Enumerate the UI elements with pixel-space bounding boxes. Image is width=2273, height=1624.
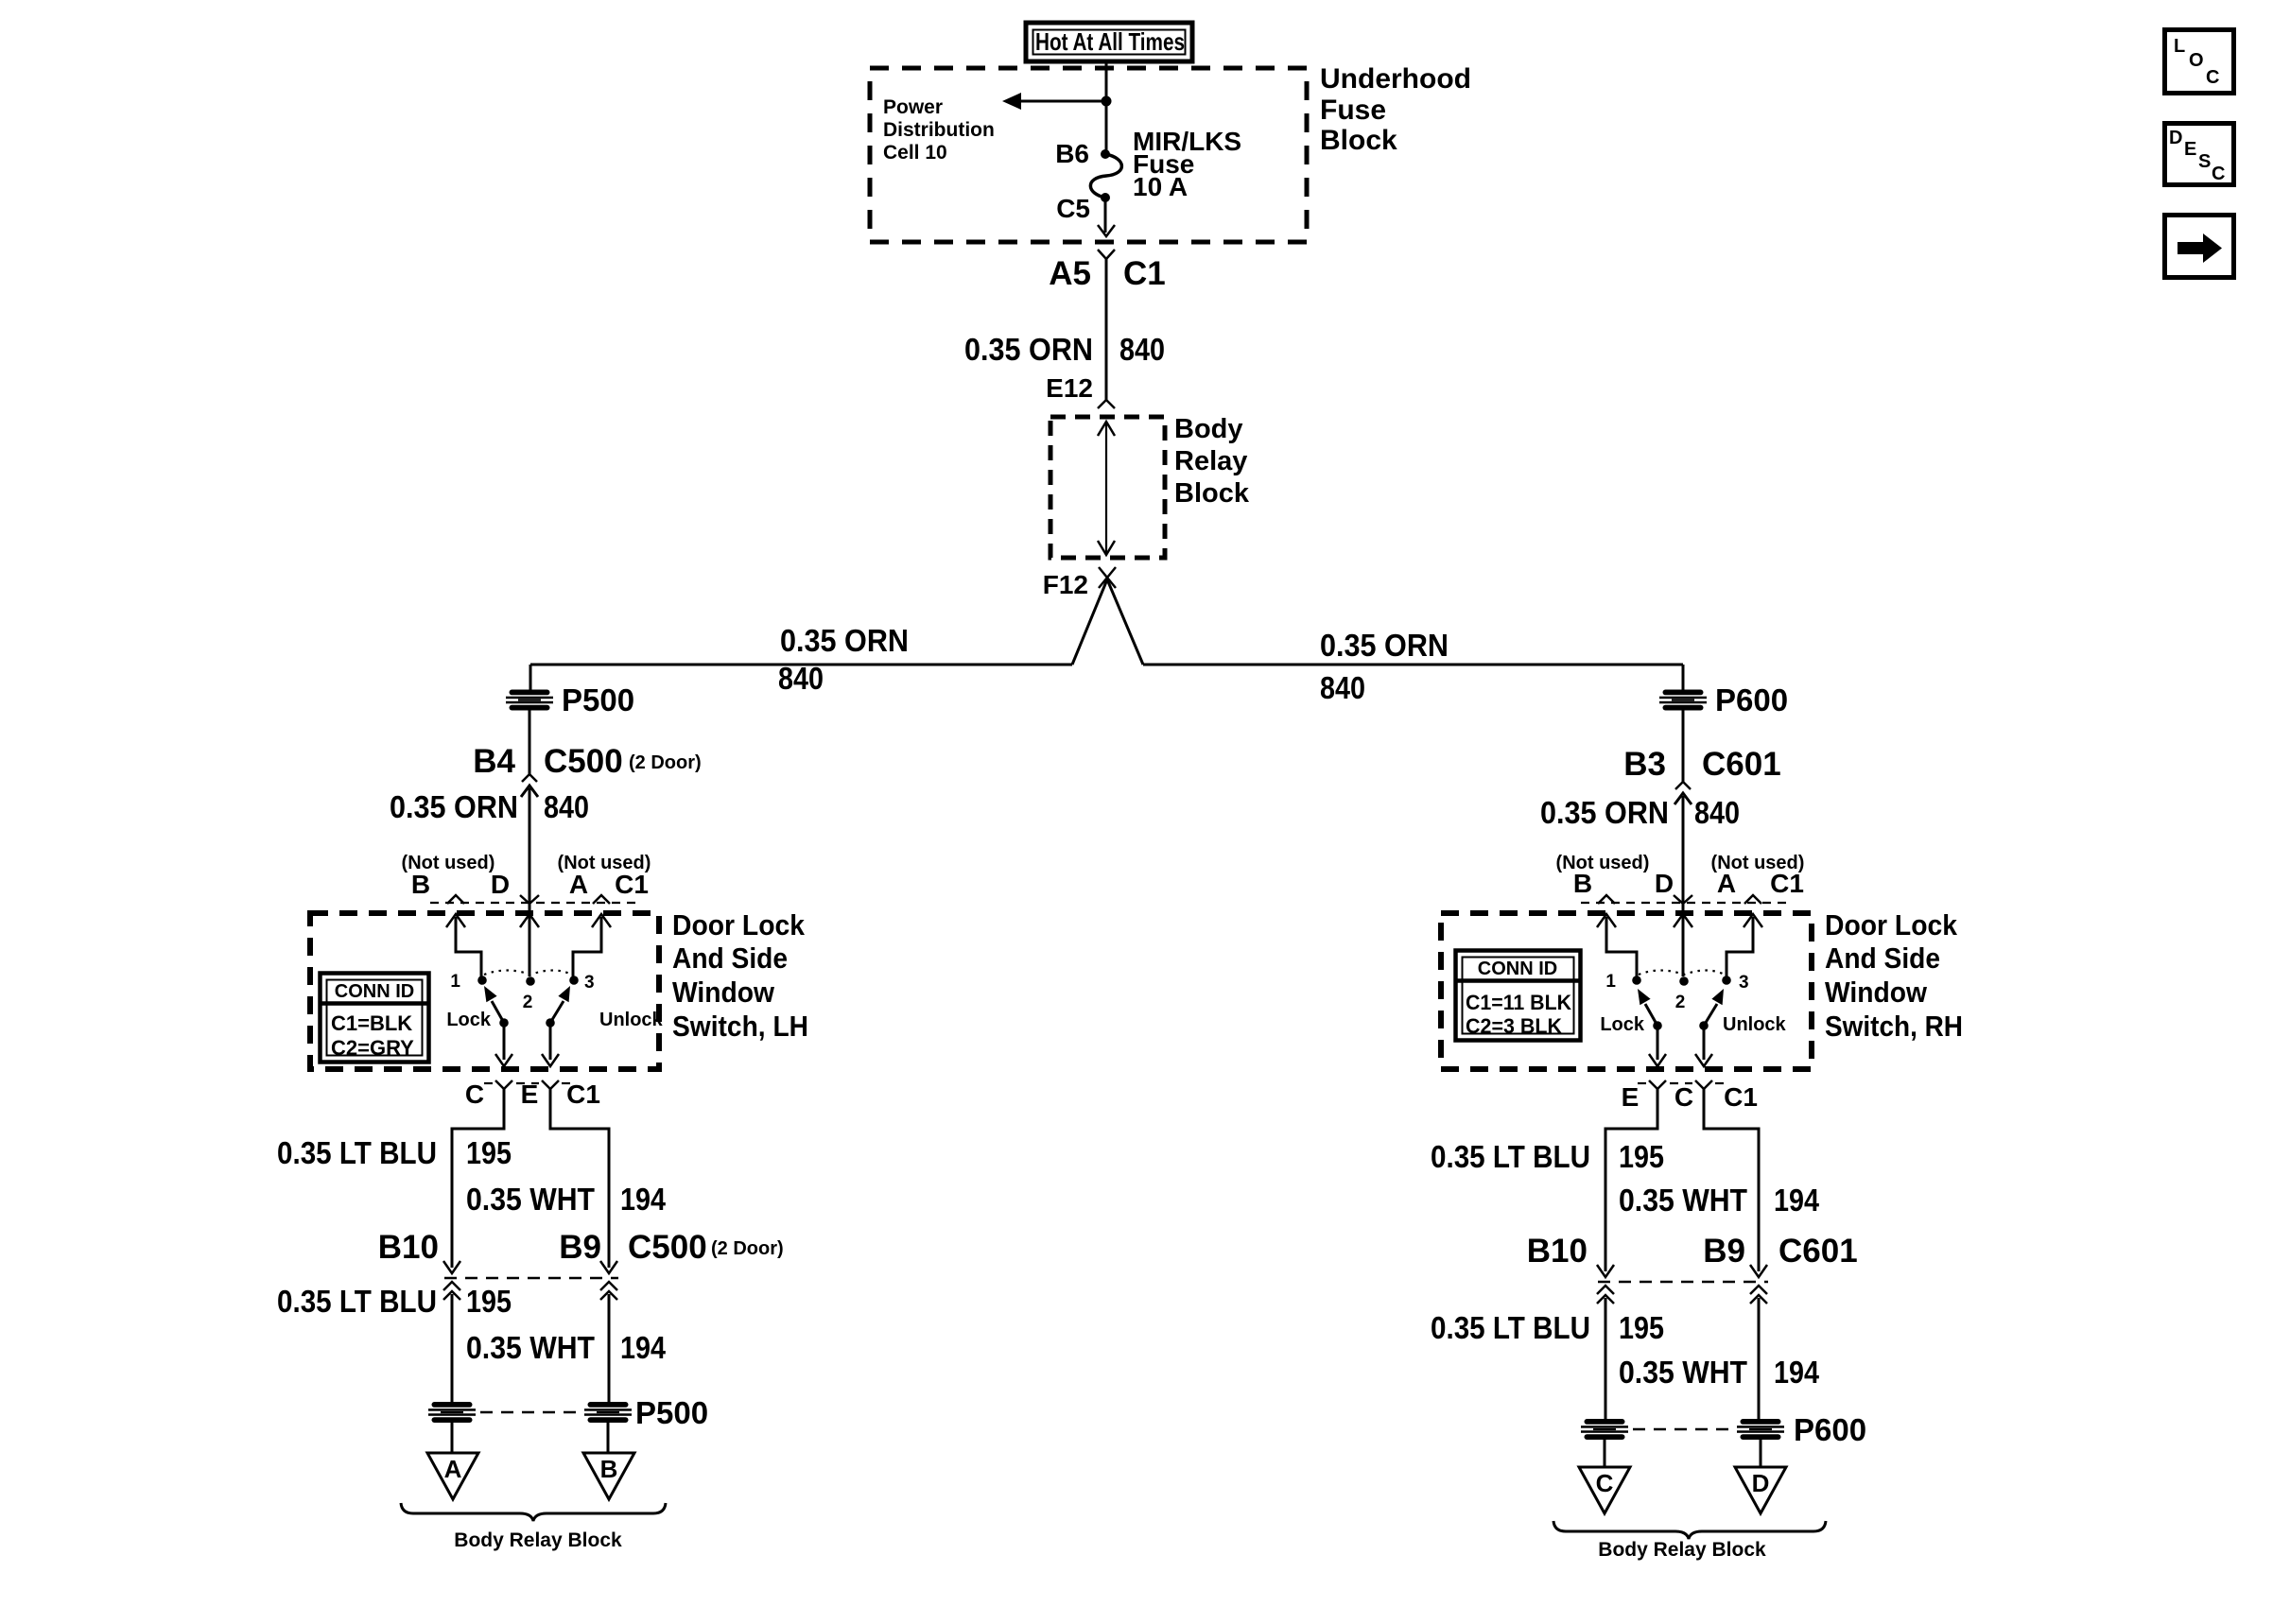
node contact 1 bbox=[1632, 976, 1641, 985]
connector face dashed line bbox=[430, 902, 635, 904]
wire WHT from C1 bbox=[1704, 1089, 1759, 1271]
svg-text:A: A bbox=[1717, 869, 1736, 898]
svg-text:Block: Block bbox=[1174, 478, 1250, 509]
fuse MIR/LKS 10A bbox=[1090, 154, 1121, 198]
wire into triangle C bbox=[1604, 1440, 1606, 1467]
label Body Relay Block bbox=[1174, 414, 1250, 509]
svg-text:D: D bbox=[2169, 128, 2182, 148]
svg-text:O: O bbox=[2189, 50, 2204, 71]
svg-text:Lock: Lock bbox=[1600, 1014, 1645, 1035]
wire Unlock contact down bbox=[549, 1023, 552, 1060]
connector grommet P600 bottom right bbox=[1737, 1419, 1784, 1440]
svg-text:B9: B9 bbox=[559, 1229, 601, 1266]
wire pin A to contact 3 bbox=[1726, 914, 1762, 976]
node contact 1 bbox=[477, 976, 487, 985]
svg-text:195: 195 bbox=[466, 1135, 512, 1170]
node contact 2 bbox=[526, 976, 535, 986]
wire 0.35 ORN 840 trunk bbox=[1105, 259, 1108, 400]
label Underhood Fuse Block bbox=[1320, 63, 1471, 156]
svg-text:Door Lock: Door Lock bbox=[1825, 908, 1958, 942]
svg-text:C1: C1 bbox=[566, 1080, 600, 1109]
underhood fuse block dashed box bbox=[870, 68, 1307, 242]
connector C1 separation (A5/C1) bbox=[1098, 250, 1115, 259]
wire WHT from E bbox=[550, 1089, 609, 1268]
svg-text:Window: Window bbox=[1825, 976, 1928, 1009]
label Power Distribution Cell 10 bbox=[883, 96, 995, 164]
CONN ID table LH bbox=[321, 974, 429, 1063]
svg-text:C1: C1 bbox=[615, 870, 649, 899]
svg-text:C: C bbox=[1596, 1469, 1614, 1497]
svg-text:840: 840 bbox=[1320, 670, 1365, 705]
wire 0.35 ORN 840 right vertical bbox=[1682, 796, 1685, 976]
connector C pin separation below switch bbox=[495, 1080, 512, 1089]
svg-text:B10: B10 bbox=[1527, 1233, 1588, 1270]
wire through body relay block (double arrow) bbox=[1098, 422, 1115, 555]
svg-text:A: A bbox=[444, 1455, 462, 1483]
node Lock contact bbox=[499, 1018, 509, 1028]
svg-text:0.35 ORN: 0.35 ORN bbox=[964, 332, 1093, 367]
wire below P500 bbox=[529, 710, 531, 774]
svg-text:194: 194 bbox=[620, 1182, 667, 1217]
wire right branch drop bbox=[1682, 665, 1685, 690]
node terminal triangle A bbox=[427, 1453, 478, 1499]
pin chevron A bbox=[1744, 895, 1761, 904]
connector grommet P600 bottom left bbox=[1581, 1419, 1628, 1440]
wire pin D to contact 2 bbox=[520, 914, 539, 976]
svg-text:Switch, LH: Switch, LH bbox=[672, 1010, 808, 1043]
svg-text:E: E bbox=[2184, 139, 2196, 160]
svg-text:B: B bbox=[411, 870, 430, 899]
door lock switch RH dashed box bbox=[1441, 913, 1812, 1069]
wire right 0.35 ORN 840 horizontal bbox=[1143, 664, 1683, 666]
svg-text:A5: A5 bbox=[1049, 255, 1091, 292]
svg-text:B: B bbox=[1573, 869, 1592, 898]
switch blade Lock bbox=[1638, 989, 1657, 1026]
switch throw dotted arc bbox=[1639, 971, 1725, 976]
connector grommet P500 bottom left bbox=[428, 1402, 476, 1423]
svg-text:Underhood: Underhood bbox=[1320, 63, 1471, 95]
node Unlock contact bbox=[546, 1018, 555, 1028]
node terminal triangle B bbox=[583, 1453, 634, 1499]
svg-text:1: 1 bbox=[450, 972, 460, 992]
svg-text:P500: P500 bbox=[635, 1395, 708, 1430]
svg-text:P600: P600 bbox=[1794, 1412, 1866, 1447]
svg-text:P500: P500 bbox=[562, 682, 634, 717]
svg-text:B: B bbox=[600, 1455, 618, 1483]
pin row B D A C1 bbox=[411, 870, 649, 899]
svg-text:C1=11 BLK: C1=11 BLK bbox=[1466, 991, 1571, 1014]
wire LT BLU lower bbox=[1605, 1298, 1607, 1420]
svg-text:Power: Power bbox=[883, 96, 943, 118]
svg-text:0.35 ORN: 0.35 ORN bbox=[1320, 628, 1449, 663]
node terminal triangle D bbox=[1735, 1467, 1786, 1513]
svg-text:Relay: Relay bbox=[1174, 446, 1247, 476]
CONN ID table RH bbox=[1456, 951, 1581, 1041]
wire left branch drop bbox=[529, 665, 532, 690]
switch blade Unlock bbox=[1704, 989, 1724, 1026]
label Door Lock And Side Window Switch, LH bbox=[672, 908, 808, 1043]
wire main trunk into fuse bbox=[1105, 61, 1108, 154]
svg-text:Unlock: Unlock bbox=[1723, 1014, 1787, 1035]
DESC icon box bbox=[2165, 124, 2234, 185]
svg-text:B3: B3 bbox=[1623, 746, 1666, 783]
svg-text:B9: B9 bbox=[1703, 1233, 1745, 1270]
wire pin D to contact 2 bbox=[1674, 914, 1692, 976]
forward arrow icon box bbox=[2165, 216, 2234, 278]
svg-text:L: L bbox=[2174, 36, 2185, 57]
svg-text:E: E bbox=[521, 1080, 539, 1109]
svg-text:B10: B10 bbox=[378, 1229, 439, 1266]
svg-text:3: 3 bbox=[1739, 973, 1749, 993]
pin row B D A C1 bbox=[1573, 869, 1804, 898]
pin chevron B bbox=[447, 895, 464, 904]
wire LT BLU from E bbox=[1605, 1089, 1657, 1271]
svg-text:C: C bbox=[465, 1080, 484, 1109]
svg-text:194: 194 bbox=[620, 1330, 667, 1365]
svg-text:840: 840 bbox=[544, 789, 589, 824]
brace Body Relay Block left bbox=[401, 1503, 666, 1521]
wire WHT lower bbox=[1758, 1298, 1761, 1420]
svg-text:Body: Body bbox=[1174, 414, 1243, 444]
pin chevron D (wire entry) bbox=[520, 895, 539, 904]
pin C5 bbox=[1101, 193, 1110, 202]
svg-text:0.35 WHT: 0.35 WHT bbox=[1619, 1183, 1747, 1218]
wire into triangle D bbox=[1760, 1440, 1762, 1467]
svg-text:S: S bbox=[2198, 151, 2211, 172]
wire 0.35 ORN 840 left vertical bbox=[529, 788, 531, 976]
svg-text:195: 195 bbox=[1619, 1310, 1664, 1345]
wire arrow to Power Distribution Cell 10 bbox=[1019, 100, 1106, 103]
svg-text:CONN ID: CONN ID bbox=[1478, 959, 1557, 979]
svg-text:840: 840 bbox=[1119, 332, 1165, 367]
svg-text:2: 2 bbox=[523, 993, 533, 1012]
node Hot At All Times label box bbox=[1026, 23, 1192, 61]
wire LT BLU from C bbox=[452, 1089, 504, 1268]
label Door Lock And Side Window Switch, RH bbox=[1825, 908, 1963, 1043]
wire Unlock contact down bbox=[1703, 1026, 1706, 1060]
wire pin B to contact 1 bbox=[1597, 914, 1637, 976]
svg-text:2: 2 bbox=[1675, 993, 1686, 1012]
svg-text:C: C bbox=[2206, 67, 2219, 88]
node contact 2 bbox=[1679, 976, 1689, 986]
svg-text:0.35 WHT: 0.35 WHT bbox=[466, 1182, 595, 1217]
svg-text:Distribution: Distribution bbox=[883, 119, 995, 141]
node contact 3 bbox=[1722, 976, 1731, 985]
wire Lock contact down bbox=[1657, 1026, 1659, 1060]
svg-text:0.35 LT BLU: 0.35 LT BLU bbox=[1431, 1139, 1590, 1174]
svg-text:(2 Door): (2 Door) bbox=[711, 1238, 784, 1259]
LOC icon box bbox=[2165, 30, 2234, 94]
brace Body Relay Block right bbox=[1553, 1521, 1826, 1539]
wire pin B to contact 1 bbox=[446, 914, 481, 976]
svg-text:C5: C5 bbox=[1056, 194, 1090, 223]
switch blade Unlock bbox=[550, 986, 570, 1023]
svg-text:E: E bbox=[1622, 1082, 1640, 1112]
wire split diagonals bbox=[1072, 579, 1143, 665]
svg-text:D: D bbox=[491, 870, 510, 899]
svg-text:0.35 WHT: 0.35 WHT bbox=[1619, 1355, 1747, 1390]
wire fuse output with arrowhead bbox=[1104, 198, 1107, 233]
svg-text:A: A bbox=[569, 870, 588, 899]
svg-text:194: 194 bbox=[1774, 1355, 1820, 1390]
svg-text:Lock: Lock bbox=[446, 1010, 492, 1030]
pin chevron B bbox=[1598, 895, 1615, 904]
label MIR/LKS Fuse 10 A bbox=[1133, 127, 1241, 201]
svg-text:0.35 LT BLU: 0.35 LT BLU bbox=[277, 1135, 437, 1170]
svg-text:Fuse: Fuse bbox=[1320, 95, 1386, 126]
svg-text:C2=3 BLK: C2=3 BLK bbox=[1466, 1014, 1562, 1038]
switch throw dotted arc bbox=[484, 971, 572, 976]
node contact 3 bbox=[569, 976, 579, 985]
connector grommet P500 bottom right bbox=[584, 1402, 632, 1423]
wire WHT lower bbox=[608, 1294, 611, 1403]
svg-text:0.35 ORN: 0.35 ORN bbox=[1540, 795, 1669, 830]
svg-text:Body Relay Block: Body Relay Block bbox=[1598, 1539, 1766, 1561]
connector pin separation below switch bbox=[1649, 1080, 1666, 1089]
svg-text:C1: C1 bbox=[1123, 255, 1166, 292]
wire pin A to contact 3 bbox=[573, 914, 611, 976]
svg-text:F12: F12 bbox=[1043, 570, 1088, 599]
svg-text:C1: C1 bbox=[1724, 1082, 1758, 1112]
svg-text:B6: B6 bbox=[1055, 139, 1089, 168]
switch blade Lock bbox=[484, 986, 504, 1023]
svg-text:Cell 10: Cell 10 bbox=[883, 142, 947, 164]
svg-text:And Side: And Side bbox=[1825, 942, 1940, 975]
svg-text:(Not used): (Not used) bbox=[1556, 853, 1650, 873]
wire Lock contact down bbox=[503, 1023, 506, 1060]
svg-text:840: 840 bbox=[778, 661, 824, 696]
pin chevron D (wire entry) bbox=[1674, 895, 1692, 904]
svg-text:(2 Door): (2 Door) bbox=[629, 752, 702, 773]
connector grommet P500 top bbox=[506, 690, 553, 711]
svg-text:B4: B4 bbox=[473, 743, 515, 780]
wire below P600 bbox=[1682, 710, 1685, 782]
svg-text:C: C bbox=[1674, 1082, 1693, 1112]
pin row E C C1 bbox=[1622, 1082, 1758, 1112]
svg-text:0.35 ORN: 0.35 ORN bbox=[390, 789, 518, 824]
node junction dot bbox=[1102, 96, 1112, 107]
svg-text:Window: Window bbox=[672, 976, 775, 1009]
node Unlock contact bbox=[1699, 1021, 1709, 1030]
svg-text:1: 1 bbox=[1605, 972, 1616, 992]
svg-text:Block: Block bbox=[1320, 125, 1397, 156]
svg-text:Door Lock: Door Lock bbox=[672, 908, 806, 942]
svg-text:C500: C500 bbox=[544, 743, 623, 780]
svg-text:0.35 LT BLU: 0.35 LT BLU bbox=[277, 1284, 437, 1319]
svg-text:0.35 WHT: 0.35 WHT bbox=[466, 1330, 595, 1365]
svg-text:840: 840 bbox=[1694, 795, 1740, 830]
connector grommet P600 top bbox=[1659, 690, 1707, 711]
connector face dashed line bbox=[1581, 902, 1787, 904]
svg-text:Body Relay Block: Body Relay Block bbox=[454, 1529, 622, 1551]
wire LT BLU lower bbox=[451, 1294, 454, 1403]
svg-text:C1=BLK: C1=BLK bbox=[331, 1011, 412, 1035]
wire into triangle A bbox=[451, 1423, 454, 1453]
svg-text:C500: C500 bbox=[628, 1229, 707, 1266]
node terminal triangle C bbox=[1579, 1467, 1630, 1513]
svg-text:P600: P600 bbox=[1715, 682, 1788, 717]
svg-text:10 A: 10 A bbox=[1133, 172, 1188, 201]
svg-text:Hot At All Times: Hot At All Times bbox=[1035, 27, 1185, 56]
svg-text:0.35 LT BLU: 0.35 LT BLU bbox=[1431, 1310, 1590, 1345]
svg-text:C1: C1 bbox=[1770, 869, 1804, 898]
svg-text:E12: E12 bbox=[1046, 373, 1093, 403]
svg-text:3: 3 bbox=[584, 973, 595, 993]
svg-text:195: 195 bbox=[466, 1284, 512, 1319]
pin row C E C1 bbox=[465, 1080, 600, 1109]
svg-text:194: 194 bbox=[1774, 1183, 1820, 1218]
door lock switch LH dashed box bbox=[310, 913, 659, 1069]
node Lock contact bbox=[1653, 1021, 1662, 1030]
svg-text:C601: C601 bbox=[1702, 746, 1781, 783]
svg-text:D: D bbox=[1655, 869, 1674, 898]
svg-text:C601: C601 bbox=[1778, 1233, 1858, 1270]
wire into triangle B bbox=[607, 1423, 610, 1453]
svg-text:CONN ID: CONN ID bbox=[335, 981, 414, 1002]
svg-text:0.35 ORN: 0.35 ORN bbox=[780, 623, 909, 658]
svg-text:D: D bbox=[1752, 1469, 1770, 1497]
svg-text:And Side: And Side bbox=[672, 942, 788, 975]
body relay block dashed box bbox=[1050, 417, 1165, 558]
wire left 0.35 ORN 840 horizontal bbox=[530, 664, 1072, 666]
svg-text:C2=GRY: C2=GRY bbox=[331, 1036, 414, 1060]
pin chevron A bbox=[593, 895, 610, 904]
svg-text:195: 195 bbox=[1619, 1139, 1664, 1174]
node F12 splice X bbox=[1099, 567, 1116, 588]
svg-text:Switch, RH: Switch, RH bbox=[1825, 1010, 1963, 1043]
svg-text:C: C bbox=[2212, 164, 2225, 184]
svg-text:Unlock: Unlock bbox=[599, 1010, 664, 1030]
